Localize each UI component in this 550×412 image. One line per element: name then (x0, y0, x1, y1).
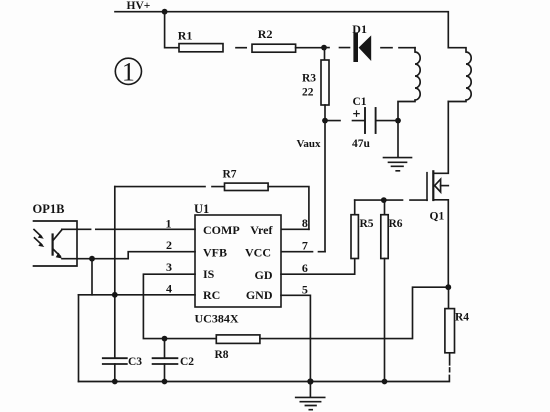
svg-text:47u: 47u (352, 138, 371, 150)
node B (aux/C1 ground node) (395, 118, 401, 124)
node R8/C2 (162, 336, 168, 342)
svg-text:VFB: VFB (203, 245, 227, 259)
wire gate line (355, 199, 427, 201)
svg-text:1: 1 (166, 217, 172, 231)
capacitor C1 (325, 96, 398, 150)
svg-text:4: 4 (166, 281, 172, 295)
transistor of OP1B (51, 235, 53, 255)
svg-text:D1: D1 (352, 22, 367, 36)
svg-text:R3: R3 (302, 73, 316, 85)
node source junction (445, 284, 451, 290)
node bus C2 (162, 379, 168, 385)
svg-text:8: 8 (302, 216, 308, 230)
ground (under C1 node) (384, 121, 412, 171)
svg-text:C2: C2 (180, 356, 194, 368)
node Vaux (322, 118, 328, 124)
resistor R1 (179, 44, 223, 52)
svg-text:GD: GD (255, 268, 273, 282)
wire VCC pin7 (281, 251, 325, 253)
capacitor C3 (103, 356, 143, 382)
svg-text:IS: IS (203, 267, 215, 281)
svg-text:R8: R8 (215, 349, 229, 361)
inductor primary winding (448, 48, 471, 102)
svg-text:R5: R5 (360, 218, 374, 230)
node bus ground (307, 378, 313, 384)
ground (main, under bus) (296, 382, 325, 410)
resistor R2 (252, 44, 296, 52)
resistor R3 (302, 48, 329, 121)
svg-text:OP1B: OP1B (33, 202, 65, 216)
svg-text:R2: R2 (258, 27, 273, 41)
wire top HV+ rail (115, 12, 448, 48)
wire pin5 GND down to bus (281, 295, 310, 381)
svg-text:R7: R7 (223, 169, 237, 181)
capacitor C2 (153, 339, 195, 382)
svg-text:COMP: COMP (203, 223, 240, 237)
wire dash R1 to R2 (236, 47, 246, 49)
svg-text:R4: R4 (455, 312, 469, 324)
svg-text:C1: C1 (353, 96, 367, 108)
optocoupler OP1B (33, 202, 78, 266)
svg-text:HV+: HV+ (127, 0, 151, 12)
node bus R6 (382, 379, 388, 385)
svg-text:U1: U1 (194, 202, 209, 216)
svg-text:UC384X: UC384X (195, 312, 239, 326)
svg-text:Vref: Vref (250, 223, 273, 237)
wire R2 to node A (296, 47, 324, 49)
node emitter junction (89, 256, 95, 262)
wire R7 left vertical down to C3 (114, 187, 116, 359)
resistor R4 (445, 287, 469, 372)
wire D1 to aux winding (dashed) (381, 47, 415, 49)
op-amp U1 box (UC384X) (195, 215, 281, 307)
resistor R5 (351, 200, 374, 258)
wire pin3 IS to sense line (143, 274, 216, 338)
svg-text:6: 6 (302, 261, 308, 275)
diode D1 (352, 22, 371, 62)
wire pin2 VFB to opto emitter (62, 252, 195, 259)
svg-text:22: 22 (302, 87, 314, 99)
wire node A toward D1 (dashed) (324, 47, 350, 49)
node A (R2/R3/D1) (321, 45, 327, 51)
svg-text:GND: GND (246, 288, 273, 302)
resistor R6 (381, 200, 403, 381)
wire pin6 GD to R5 (281, 259, 355, 275)
svg-text:5: 5 (302, 282, 308, 296)
node gate/R6 (381, 197, 387, 203)
wire left vertical to ground bus (78, 295, 80, 382)
wire emitter node down (91, 259, 93, 295)
svg-text:VCC: VCC (245, 245, 271, 259)
svg-text:C3: C3 (128, 356, 142, 368)
resistor R8 (215, 335, 260, 361)
svg-text:Q1: Q1 (430, 211, 445, 223)
svg-text:2: 2 (166, 238, 172, 252)
svg-text:7: 7 (302, 239, 308, 253)
svg-text:R1: R1 (178, 29, 193, 43)
wire rail branch down to R1 (165, 12, 179, 48)
transistor Q1 (N-MOSFET) (427, 102, 448, 288)
svg-text:RC: RC (203, 288, 220, 302)
svg-text:1: 1 (122, 58, 135, 87)
wire pin1 COMP to opto collector (62, 228, 195, 230)
circled 1 marker (115, 58, 141, 87)
wire pin4 RC left (79, 294, 196, 296)
svg-text:3: 3 (166, 260, 172, 274)
wire ground bus (79, 376, 450, 382)
node bus C3 (112, 379, 118, 385)
wire R8 to source sense (260, 287, 448, 338)
svg-text:R6: R6 (389, 218, 403, 230)
svg-text:Vaux: Vaux (297, 138, 322, 150)
node RC junction (112, 292, 118, 298)
wire Vaux vertical to VCC (324, 121, 326, 252)
resistor R7 (115, 169, 309, 230)
node top rail junction (162, 9, 168, 15)
inductor aux winding (398, 48, 420, 121)
